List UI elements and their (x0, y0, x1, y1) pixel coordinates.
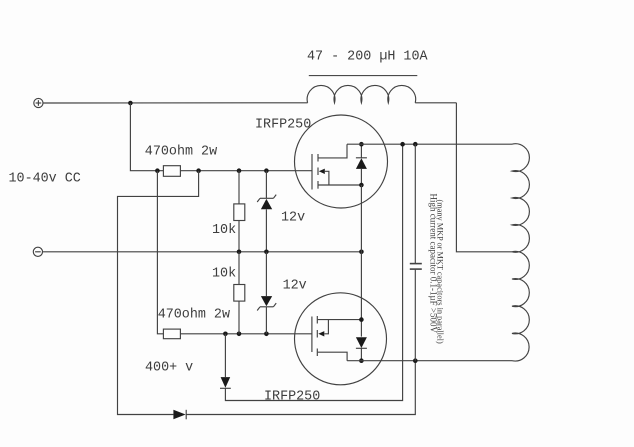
zener Z1 12v (257, 171, 276, 252)
wire from junction down to gate row 1 (130, 103, 163, 171)
node dot row2 a (223, 332, 228, 337)
node dot Q2 source (359, 317, 364, 322)
work coil L2 (512, 144, 529, 361)
diode D2 on bottom bus (173, 410, 186, 420)
node dot row2 c (264, 332, 269, 337)
wire 10k1 bottom lead (238, 221, 240, 252)
node dot row1 d (264, 168, 269, 173)
node dot row1 b (196, 168, 201, 173)
node dot Q1 source (359, 183, 364, 188)
node dot Q1 drain (359, 142, 364, 147)
transistor Q2 IRFP250 symbol (312, 316, 362, 361)
transistor Q1 circle (295, 115, 388, 208)
zener Z2 12v (257, 252, 276, 334)
capacitor C1 plates (410, 263, 422, 265)
svg-text:12v: 12v (283, 278, 307, 293)
svg-text:470ohm 2w: 470ohm 2w (158, 307, 230, 322)
terminal minus (33, 247, 42, 256)
wire minus bus (43, 251, 362, 253)
svg-text:(many MKP or MKT capacitors in: (many MKP or MKT capacitors in parallel) (435, 200, 444, 344)
wire 10k2 bottom lead (238, 301, 240, 334)
capacitor C1 bottom lead (414, 270, 416, 361)
node dot row2 b (237, 332, 242, 337)
svg-text:470ohm 2w: 470ohm 2w (145, 144, 217, 159)
svg-text:IRFP250: IRFP250 (264, 389, 320, 404)
wire top gate feedback down-left to bottom bus (118, 171, 199, 415)
svg-text:47 - 200 µH 10A: 47 - 200 µH 10A (307, 50, 428, 65)
svg-text:10k: 10k (212, 266, 236, 281)
diode D1 bottom gate feedback (220, 144, 403, 400)
wire Q2 drain bus to coil bottom (347, 360, 512, 362)
node dot drain bus b (413, 142, 418, 147)
node dot bus b (264, 250, 269, 255)
resistor R2 470ohm 2w (163, 329, 180, 339)
transistor Q2 circle (295, 293, 387, 385)
node dot row1 a (155, 168, 160, 173)
Q1 body diode (356, 144, 367, 185)
wire top rail left (43, 102, 308, 104)
svg-text:10k: 10k (212, 223, 236, 238)
node dot row1 c (237, 168, 242, 173)
node dot drain bus a (400, 142, 405, 147)
resistor R1 470ohm 2w (163, 166, 180, 177)
wire gate row 2 to Q2 gate (180, 333, 312, 335)
wire gate row 1 to Q1 gate (180, 170, 311, 172)
node dot bus c (359, 250, 364, 255)
terminal plus (34, 98, 43, 107)
wire midpoint Q1 source to Q2 source (360, 185, 362, 320)
wire top rail right (415, 102, 456, 104)
node dot Q2 drain bus cap (413, 358, 418, 363)
svg-text:10-40v CC: 10-40v CC (9, 171, 81, 186)
resistor 10k #1 (234, 204, 245, 221)
node junction dot top rail (128, 101, 133, 106)
wire 10k2 top lead (238, 252, 240, 285)
node dot bus a (237, 250, 242, 255)
inductor L1 47-200uH (307, 85, 416, 102)
svg-text:400+ v: 400+ v (145, 360, 193, 375)
transistor Q1 IRFP250 symbol (312, 144, 361, 189)
svg-text:IRFP250: IRFP250 (255, 117, 311, 132)
svg-text:12v: 12v (281, 211, 305, 226)
wire bottom bus right and up to Q2 drain node (186, 361, 415, 415)
capacitor C1 top lead (414, 144, 416, 263)
wire Q1 drain bus (347, 143, 512, 145)
wire plus feed down to coil center tap (456, 103, 512, 252)
wire 10k1 top lead (238, 171, 240, 204)
wire from row1 down to resistor R2 (157, 171, 163, 334)
title underline (309, 75, 418, 77)
node dot Q2 drain (359, 358, 364, 363)
resistor 10k #2 (234, 285, 245, 302)
Q2 body diode (356, 320, 367, 361)
